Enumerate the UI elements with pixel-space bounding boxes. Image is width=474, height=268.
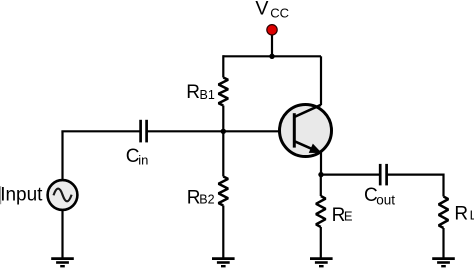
ground: under R_B2 (212, 259, 235, 267)
terminal: Vcc red dot (267, 25, 277, 35)
wire: collector vertical (320, 56, 322, 105)
svg-text:B1: B1 (200, 88, 215, 102)
svg-text:in: in (138, 153, 148, 168)
source V1 (Input AC source) (48, 180, 78, 210)
wire: input source top lead (61, 131, 63, 179)
wire: C_in to base node to transistor base (147, 130, 294, 132)
svg-text:L: L (470, 208, 474, 223)
wire: input to C_in horizontal (61, 130, 140, 132)
ground: under R_E (310, 259, 333, 267)
ground: under input source (51, 259, 74, 267)
wire: top rail (223, 55, 321, 57)
wire: emitter to C_out horizontal (321, 174, 380, 176)
wire: emitter vertical (320, 152, 322, 175)
capacitor C_out (380, 164, 386, 186)
svg-text:E: E (344, 209, 353, 224)
svg-text:V: V (255, 0, 268, 19)
capacitor C_in (141, 120, 147, 143)
svg-text:CC: CC (270, 6, 289, 21)
ground: under R_L (432, 259, 455, 267)
svg-text:R: R (454, 204, 468, 225)
resistor R_B1 (219, 78, 229, 106)
wire: R_L lower lead to ground (442, 228, 444, 259)
wire: R_B1 lower lead (222, 106, 224, 132)
resistor R_B2 (219, 177, 229, 206)
wire: C_out to R_L (387, 175, 444, 197)
resistor R_E (316, 196, 326, 227)
node: Vcc rail junction (269, 54, 274, 59)
resistor R_L (439, 197, 449, 229)
svg-text:Input: Input (0, 185, 43, 206)
svg-text:R: R (186, 82, 200, 103)
wire: input source bottom lead to ground (61, 211, 63, 259)
wire: R_B2 upper lead (222, 131, 224, 176)
wire: R_E lower lead to ground (320, 227, 322, 259)
transistor Q1 (280, 105, 332, 157)
node: emitter junction (318, 172, 323, 177)
svg-text:B2: B2 (199, 193, 214, 207)
wire: R_B1 upper lead (222, 55, 224, 77)
label: clipped glyph sliver at left edge (0, 186, 1, 204)
wire: R_E upper lead (320, 175, 322, 196)
svg-text:out: out (376, 192, 395, 207)
wire: R_B2 lower lead to ground (222, 206, 224, 259)
wire: Vcc stub (271, 33, 273, 56)
node: base junction (221, 129, 226, 134)
